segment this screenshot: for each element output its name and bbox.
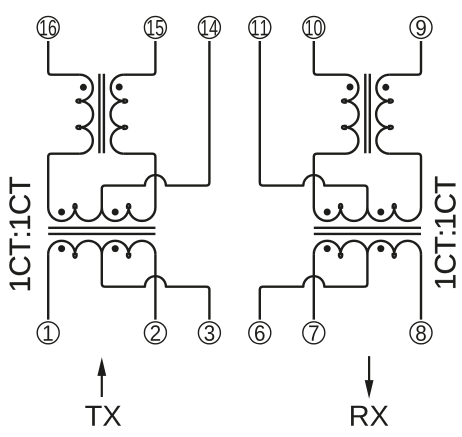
pin 15 [144,16,166,38]
pin 6 [249,322,271,344]
winding cusp curl T primary upper (T1/L1) [76,99,81,102]
transformer T2 secondary winding [346,75,359,154]
choke L1 core [48,228,155,234]
transformer T1 core [99,74,104,153]
wire L2 to pin 7 [313,254,315,319]
polarity dot L1 winding A [58,209,65,216]
polarity dot L2 winding A tap side [377,209,384,216]
pin 2 [144,322,166,344]
pin 7 [303,322,325,344]
pin 9 [410,16,432,38]
pin 1 [37,322,59,344]
winding cusp curl T secondary upper (T1/L1) [123,99,128,102]
winding cusp curl T secondary lower (T1/L1) [123,126,128,129]
wire T1 secondary bottom to choke L1 [124,154,156,208]
wire pin 11 to L2 center tap with crossover hop [260,41,368,208]
polarity dot L2 winding B tap side [377,245,384,252]
pin 3 [198,322,220,344]
pin 16 [37,16,59,38]
label RX [351,406,388,426]
wire T2 primary bottom to choke L2 [389,154,421,208]
polarity dot L1 winding A tap side [112,209,119,216]
polarity dot T1 secondary [116,84,123,91]
winding cusp curl choke A left (T1/L1) [73,204,76,209]
winding cusp curl choke A right (T1/L1) [127,204,130,209]
winding cusp curl choke B left (T1/L1) [73,253,76,258]
choke L1 winding A [48,208,155,221]
wire pin 9 to T2 primary top [389,41,421,75]
winding cusp curl T secondary upper (T2/L2) [342,99,347,102]
winding cusp curl T primary lower (T1/L1) [76,126,81,129]
winding cusp curl choke A left (T2/L2) [393,204,396,209]
pin 11 [249,16,271,38]
pin 8 [410,322,432,344]
polarity dot T2 secondary [347,84,354,91]
transformer T1 secondary winding [111,75,124,154]
wire T1 primary bottom to choke L1 [48,154,80,208]
TX direction arrow (up) [101,374,103,398]
wire pin 14 to L1 center tap with crossover hop [102,41,210,208]
polarity dot L2 winding B [324,245,331,252]
winding cusp curl choke B right (T2/L2) [339,253,342,258]
turns ratio label 1CT:1CT left [9,177,30,290]
wire L2 to pin 8 [420,254,422,319]
winding cusp curl choke A right (T2/L2) [339,204,342,209]
winding cusp curl T primary lower (T2/L2) [388,126,393,129]
wire pin 10 to T2 secondary top [314,41,346,75]
winding cusp curl choke B left (T2/L2) [393,253,396,258]
transformer T2 primary winding [376,75,389,154]
RX direction arrow (down) [368,356,370,382]
polarity dot T2 primary [382,84,389,91]
wire pin 16 to T1 primary top [48,41,80,75]
choke L2 winding A [314,208,421,221]
choke L1 winding B [48,241,155,254]
choke L2 core [314,228,421,234]
transformer T2 core [365,74,370,153]
wire L1 to pin 1 [47,254,49,319]
wire L2 center tap to pin 6 with crossover hop [260,254,368,319]
polarity dot L1 winding B tap side [112,245,119,252]
wire T2 secondary bottom to choke L2 [314,154,346,208]
winding cusp curl choke B right (T1/L1) [127,253,130,258]
polarity dot L2 winding A [324,209,331,216]
wire pin 15 to T1 secondary top [124,41,156,75]
polarity dot T1 primary [80,84,87,91]
label TX [85,406,121,426]
pin 10 [303,16,325,38]
wire L1 to pin 2 [154,254,156,319]
pin 14 [198,16,220,38]
turns ratio label 1CT:1CT right [435,177,456,288]
transformer T1 primary winding [80,75,93,154]
winding cusp curl T primary upper (T2/L2) [388,99,393,102]
polarity dot L1 winding B [58,245,65,252]
wire L1 center tap to pin 3 with crossover hop [102,254,210,319]
choke L2 winding B [314,241,421,254]
winding cusp curl T secondary lower (T2/L2) [342,126,347,129]
